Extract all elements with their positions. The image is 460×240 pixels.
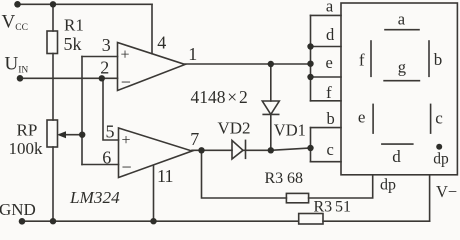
segment d line (382, 143, 413, 145)
svg-text:VD2: VD2 (218, 119, 251, 138)
node bus f junction (307, 74, 313, 80)
svg-text:11: 11 (157, 166, 173, 186)
wire Uin input (20, 77, 118, 79)
wire VD2 cathode to c terminal (243, 148, 311, 150)
resistor R1 (47, 31, 58, 54)
svg-text:+: + (122, 132, 131, 149)
wire wiper vertical (81, 57, 83, 165)
wire V- riser (429, 175, 431, 221)
svg-text:dp: dp (433, 151, 449, 168)
svg-text:1: 1 (188, 44, 197, 64)
svg-text:e: e (326, 53, 333, 72)
node R1 top junction (50, 1, 56, 7)
svg-text:+: + (121, 47, 130, 64)
terminal c cell line (311, 161, 342, 163)
svg-text:6: 6 (102, 147, 111, 167)
svg-text:a: a (326, 0, 334, 15)
node c terminal junction (307, 145, 313, 151)
svg-text:−: − (122, 157, 132, 177)
svg-text:dp: dp (380, 177, 396, 194)
svg-text:e: e (358, 107, 366, 126)
resistor R3 68 (286, 193, 308, 202)
svg-text:g: g (398, 58, 406, 77)
node RP bottom junction (50, 218, 56, 224)
wiper arrowhead (57, 131, 66, 138)
wire wiper to pin6 (82, 164, 119, 166)
svg-text:RP: RP (17, 121, 38, 140)
node bus d junction (307, 43, 313, 49)
resistor R3 51 (299, 214, 323, 225)
svg-text:f: f (326, 83, 332, 102)
svg-text:c: c (435, 108, 443, 127)
svg-text:4: 4 (157, 33, 166, 53)
segment e line (372, 104, 374, 133)
wire op1 output (185, 63, 311, 65)
svg-text:3: 3 (102, 35, 111, 55)
svg-text:a: a (398, 9, 406, 28)
node pin11 junction (150, 218, 156, 224)
wire R1 top lead (52, 4, 54, 31)
decimal point dot of display (436, 144, 442, 150)
svg-text:5k: 5k (64, 34, 82, 54)
terminal e cell line (311, 76, 342, 78)
op-amp U2 LM324 (119, 128, 193, 178)
svg-text:VCC: VCC (2, 12, 28, 34)
svg-text:VD1: VD1 (274, 121, 306, 140)
terminal a wire (311, 14, 342, 16)
display box DS1 (341, 3, 457, 175)
svg-text:f: f (359, 50, 365, 69)
segment b line (428, 41, 430, 76)
svg-text:UIN: UIN (5, 54, 29, 76)
svg-text:100k: 100k (9, 139, 44, 158)
svg-text:LM324: LM324 (69, 188, 120, 207)
segment g line (384, 80, 419, 82)
node wiper junction (79, 132, 85, 138)
node GND terminal (19, 218, 26, 225)
wire R3 68 to dp terminal (309, 175, 373, 198)
wiper arrow of RP (60, 134, 82, 136)
terminal b cell line (311, 127, 342, 129)
node Uin/pin2 junction (99, 75, 105, 81)
svg-text:4148×2: 4148×2 (191, 87, 248, 107)
node Uin terminal (17, 75, 24, 82)
segment f line (370, 41, 372, 76)
terminal d cell line (311, 46, 342, 48)
wire pin11 to ground rail (153, 165, 155, 221)
wire VD1 bottom lead (270, 114, 272, 150)
wire ground rail right of R3 51 (323, 220, 430, 222)
svg-text:b: b (327, 109, 335, 128)
wire RP bottom to ground rail (52, 147, 54, 221)
node VCC terminal (14, 1, 21, 8)
wire VCC top rail (18, 3, 153, 5)
node VD1 top junction (268, 61, 274, 67)
svg-text:R1: R1 (64, 16, 84, 35)
wire Uin branch to pin5 (103, 78, 119, 140)
wire pin4 drop (151, 4, 153, 53)
wire wiper to pin3 (82, 56, 118, 58)
terminal bus b-c (310, 128, 312, 162)
wire op2 output down to R3 68 (202, 150, 287, 198)
svg-text:5: 5 (106, 121, 115, 141)
segment a line (385, 29, 419, 31)
svg-text:d: d (326, 25, 335, 44)
svg-text:2: 2 (100, 57, 109, 77)
terminal bus a-d-e-f (310, 15, 312, 100)
wire VD1 top lead (270, 64, 272, 101)
wire ground rail (22, 220, 299, 222)
wire op2 output (192, 149, 232, 151)
segment c line (430, 104, 432, 133)
svg-text:d: d (392, 147, 401, 166)
wire R1 bottom to RP (52, 54, 54, 121)
node op2 output junction (198, 147, 204, 153)
terminal f cell line (311, 100, 342, 102)
diode VD2 (232, 140, 243, 159)
svg-text:7: 7 (190, 129, 199, 149)
node VD1/VD2 junction (268, 147, 274, 153)
potentiometer RP (47, 120, 58, 147)
diode VD1 (262, 101, 279, 114)
op-amp U1 LM324 (118, 43, 186, 91)
svg-text:GND: GND (0, 200, 36, 219)
svg-text:−: − (121, 72, 131, 92)
svg-text:b: b (434, 50, 443, 69)
svg-text:R368: R368 (265, 170, 304, 187)
svg-text:V−: V− (436, 182, 457, 201)
svg-text:c: c (327, 140, 334, 159)
node bus e junction (307, 61, 313, 67)
svg-text:R351: R351 (314, 199, 352, 216)
